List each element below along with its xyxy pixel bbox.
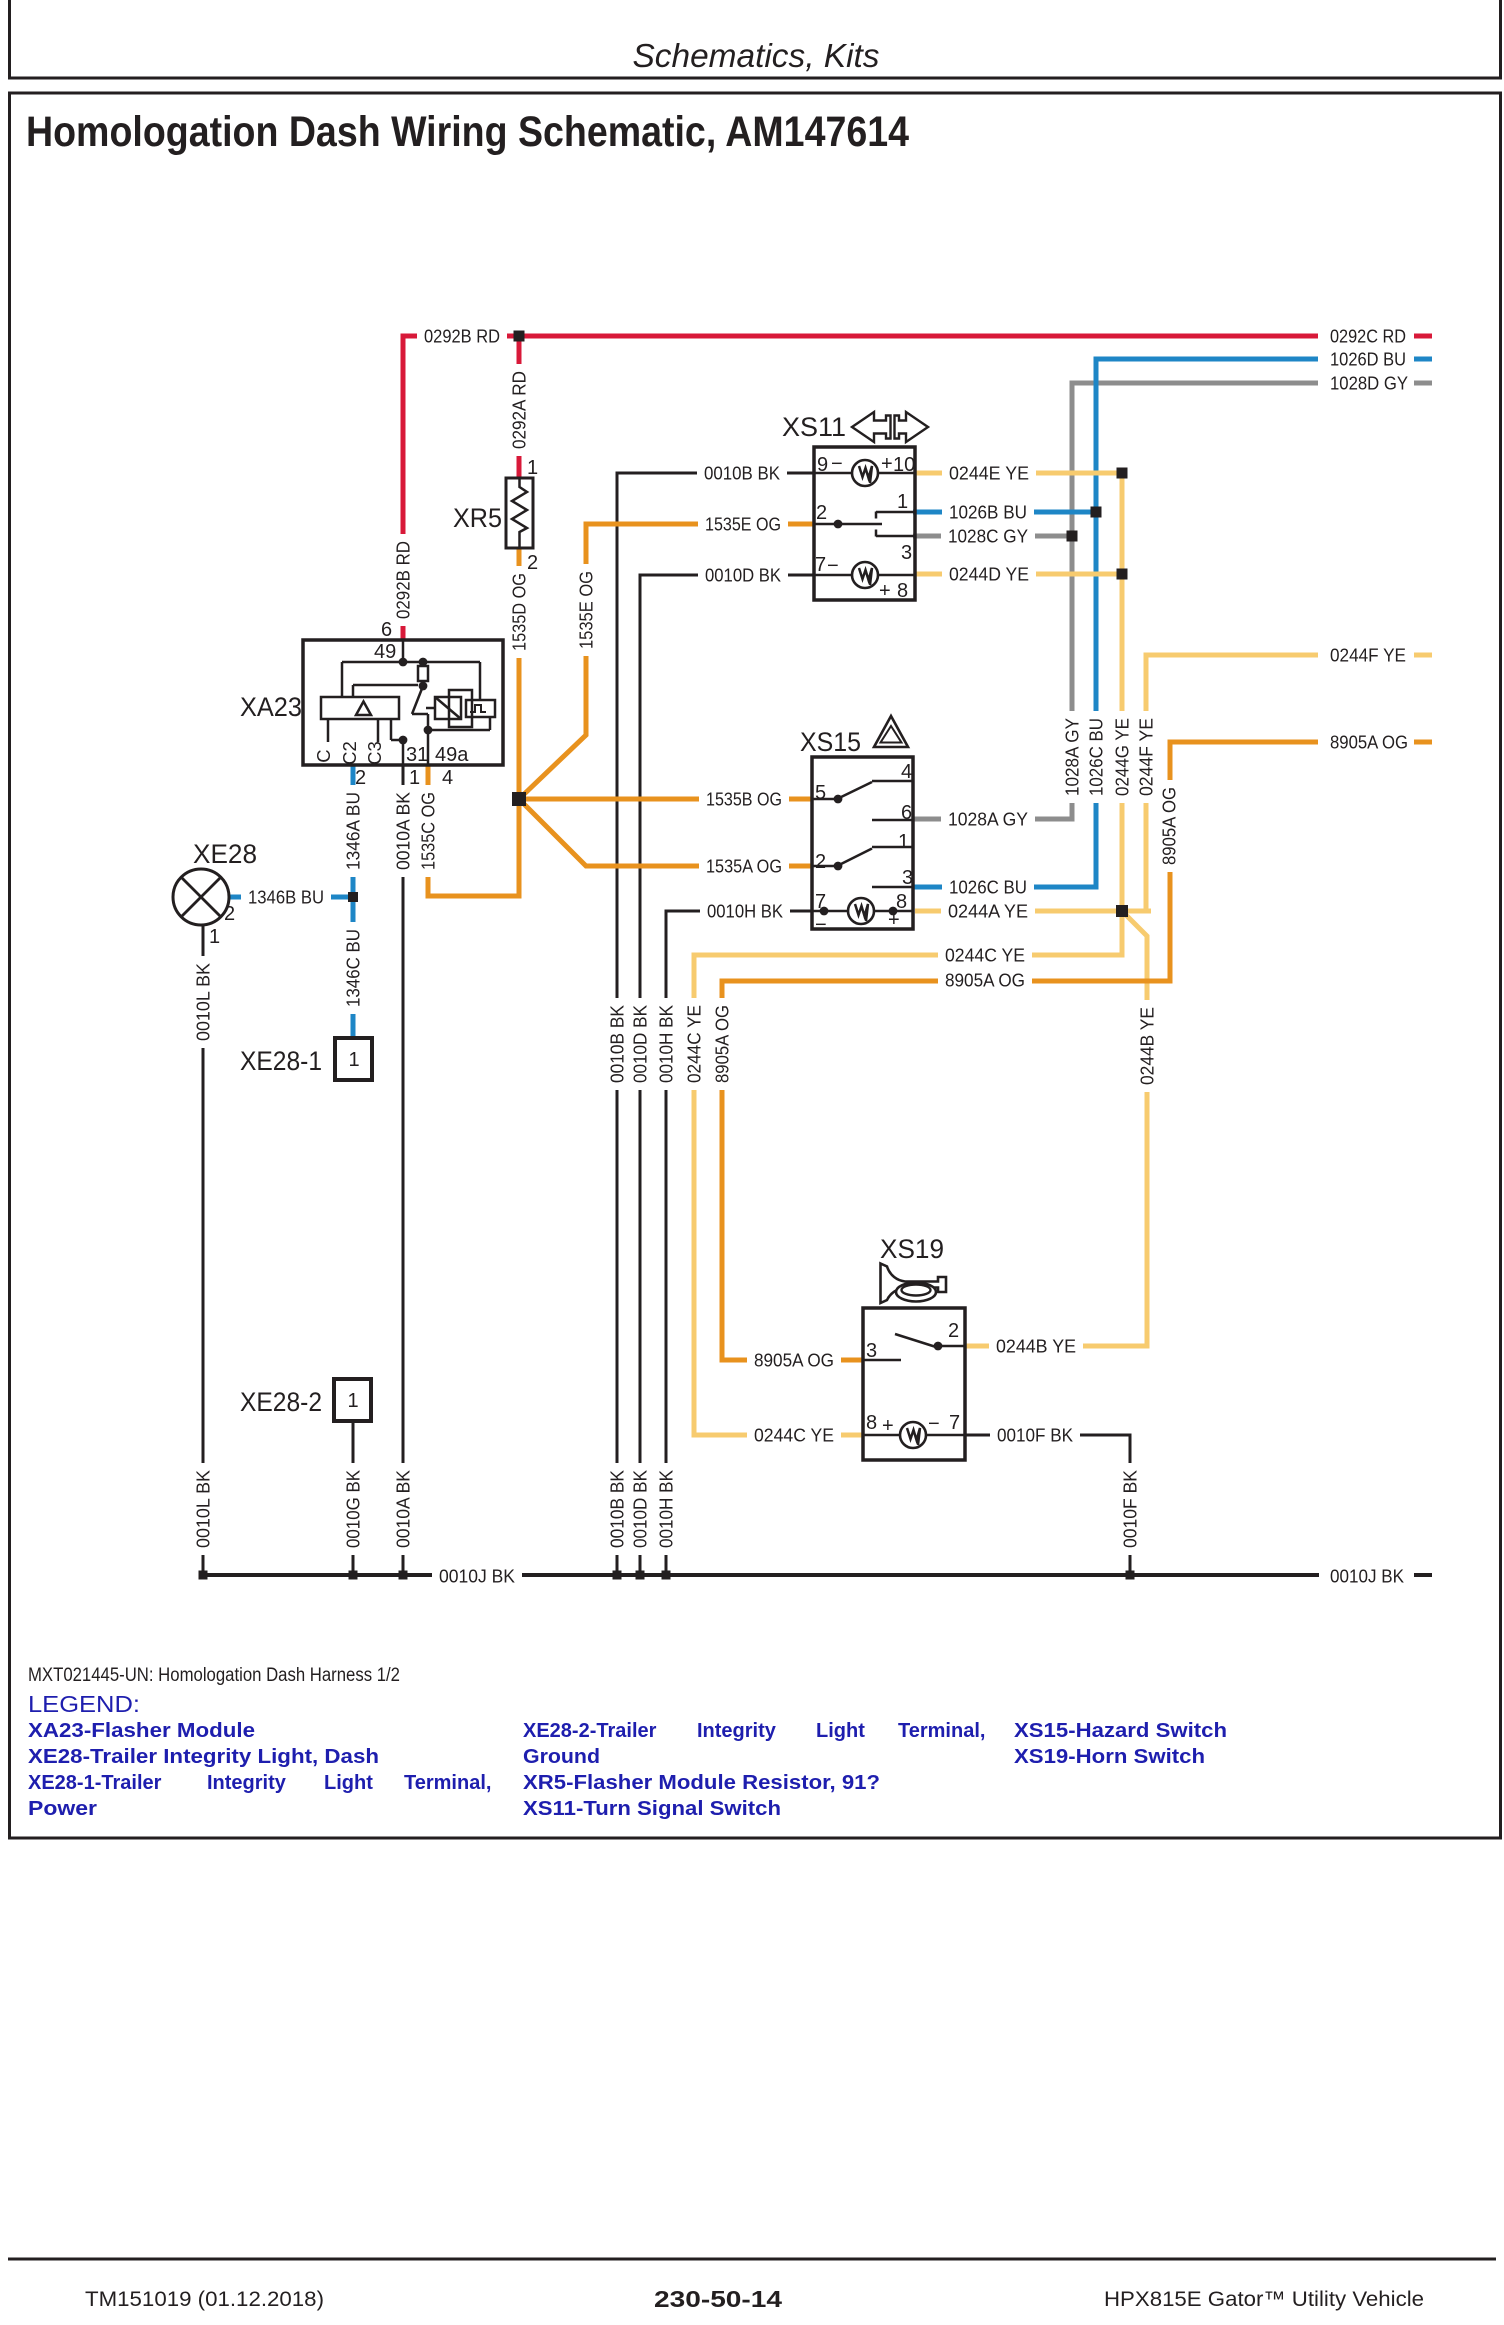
svg-text:XA23: XA23 [240,692,302,722]
svg-text:2: 2 [355,767,366,789]
svg-text:31: 31 [406,744,428,766]
svg-text:XS19: XS19 [880,1234,944,1264]
svg-text:XS11-Turn Signal Switch: XS11-Turn Signal Switch [523,1798,781,1820]
svg-text:7: 7 [815,554,826,576]
svg-text:230-50-14: 230-50-14 [654,2286,782,2312]
svg-text:0010B BK: 0010B BK [704,463,781,484]
svg-text:1026B BU: 1026B BU [949,502,1027,523]
svg-text:2: 2 [527,552,538,574]
svg-text:1346C BU: 1346C BU [343,929,364,1007]
svg-text:0010H BK: 0010H BK [656,1469,677,1548]
svg-text:2: 2 [948,1320,959,1342]
svg-text:0010B BK: 0010B BK [607,1004,628,1083]
svg-text:0244C YE: 0244C YE [684,1005,705,1083]
svg-text:3: 3 [902,867,913,889]
svg-text:XE28-Trailer Integrity Light,: XE28-Trailer Integrity Light, Dash [28,1746,379,1768]
svg-text:XE28-1: XE28-1 [240,1046,322,1076]
svg-text:0244C YE: 0244C YE [945,945,1025,966]
svg-text:−: − [928,1413,940,1435]
svg-text:0010L BK: 0010L BK [193,962,214,1041]
svg-text:C2: C2 [339,741,360,765]
svg-text:XS19-Horn Switch: XS19-Horn Switch [1014,1746,1205,1768]
svg-text:1: 1 [348,1049,359,1071]
svg-text:1026C BU: 1026C BU [949,877,1027,898]
svg-text:0010D BK: 0010D BK [630,1469,651,1548]
svg-text:0292C RD: 0292C RD [1330,326,1406,347]
svg-text:4: 4 [442,767,453,789]
svg-text:0010F BK: 0010F BK [997,1425,1074,1446]
svg-text:1: 1 [409,767,420,789]
svg-text:10: 10 [893,454,915,476]
svg-text:XE28: XE28 [193,839,257,869]
svg-text:5: 5 [815,782,826,804]
svg-text:0010A BK: 0010A BK [393,791,414,870]
svg-text:8905A OG: 8905A OG [754,1350,834,1371]
svg-text:0244C YE: 0244C YE [754,1425,834,1446]
svg-text:LEGEND:: LEGEND: [28,1691,140,1717]
svg-text:−: − [827,555,839,577]
svg-text:+: + [888,909,900,931]
svg-text:TM151019 (01.12.2018): TM151019 (01.12.2018) [85,2288,324,2311]
svg-text:1: 1 [898,831,909,853]
svg-text:1028A GY: 1028A GY [1062,718,1083,796]
svg-text:1026C BU: 1026C BU [1086,718,1107,796]
svg-text:9: 9 [817,454,828,476]
svg-text:1535B OG: 1535B OG [706,789,782,810]
svg-text:XR5: XR5 [453,503,502,533]
svg-text:4: 4 [901,761,912,783]
svg-text:1: 1 [347,1390,358,1412]
svg-text:0244D YE: 0244D YE [949,564,1029,585]
svg-text:C: C [313,749,334,762]
svg-text:8905A OG: 8905A OG [712,1005,733,1083]
svg-text:0010H BK: 0010H BK [707,901,784,922]
svg-text:8905A OG: 8905A OG [945,970,1025,991]
svg-text:0244A YE: 0244A YE [948,901,1028,922]
svg-text:XR5-Flasher Module Resistor, 9: XR5-Flasher Module Resistor, 91? [523,1772,880,1794]
svg-text:XE28-2-TrailerIntegrityLightTe: XE28-2-TrailerIntegrityLightTerminal, [523,1720,985,1742]
svg-text:0292B RD: 0292B RD [393,541,414,619]
svg-text:XS15-Hazard Switch: XS15-Hazard Switch [1014,1720,1227,1742]
svg-text:0010D BK: 0010D BK [705,565,782,586]
svg-text:0244B YE: 0244B YE [996,1336,1076,1357]
svg-text:0010J BK: 0010J BK [1330,1566,1405,1587]
svg-text:XS11: XS11 [782,412,846,442]
svg-text:1535D OG: 1535D OG [509,573,530,651]
svg-text:0010G BK: 0010G BK [343,1469,364,1548]
svg-text:1535C OG: 1535C OG [418,792,439,870]
svg-text:1028D GY: 1028D GY [1330,373,1408,394]
svg-text:8905A OG: 8905A OG [1159,787,1180,865]
svg-text:MXT021445-UN: Homologation Das: MXT021445-UN: Homologation Dash Harness … [28,1665,400,1686]
svg-text:0010J BK: 0010J BK [439,1566,516,1587]
svg-text:49: 49 [374,641,396,663]
svg-text:1026D BU: 1026D BU [1330,349,1406,370]
svg-text:1346A BU: 1346A BU [343,792,364,870]
svg-text:7: 7 [949,1412,960,1434]
svg-text:0010F BK: 0010F BK [1120,1469,1141,1548]
svg-text:1: 1 [897,491,908,513]
svg-text:0244B YE: 0244B YE [1137,1007,1158,1085]
svg-text:2: 2 [224,903,235,925]
svg-text:0010B BK: 0010B BK [607,1469,628,1548]
svg-text:XA23-Flasher Module: XA23-Flasher Module [28,1720,255,1742]
svg-text:1028C GY: 1028C GY [948,526,1028,547]
svg-text:8: 8 [866,1412,877,1434]
svg-text:7: 7 [815,891,826,913]
svg-text:8905A OG: 8905A OG [1330,732,1408,753]
svg-text:0010H BK: 0010H BK [656,1004,677,1083]
svg-text:0010D BK: 0010D BK [630,1004,651,1083]
svg-text:Homologation Dash Wiring Schem: Homologation Dash Wiring Schematic, AM14… [26,108,909,156]
svg-text:2: 2 [816,502,827,524]
svg-text:1: 1 [527,457,538,479]
svg-text:8: 8 [897,580,908,602]
svg-text:Ground: Ground [523,1746,600,1768]
svg-text:+: + [879,580,891,602]
svg-text:Schematics, Kits: Schematics, Kits [633,37,880,74]
svg-text:XS15: XS15 [800,727,861,757]
svg-text:+: + [882,1415,894,1437]
svg-text:6: 6 [381,619,392,641]
svg-text:1535A OG: 1535A OG [706,856,782,877]
svg-text:XE28-2: XE28-2 [240,1387,322,1417]
svg-text:1346B BU: 1346B BU [248,887,324,908]
svg-text:+: + [881,453,893,475]
svg-text:HPX815E Gator™ Utility Vehicle: HPX815E Gator™ Utility Vehicle [1104,2288,1424,2311]
svg-text:0244F YE: 0244F YE [1136,718,1157,796]
svg-text:6: 6 [901,802,912,824]
svg-text:0292B RD: 0292B RD [424,326,500,347]
svg-text:1028A GY: 1028A GY [948,809,1028,830]
svg-text:0244G YE: 0244G YE [1112,718,1133,796]
svg-text:−: − [831,453,843,475]
svg-text:0292A RD: 0292A RD [509,371,530,449]
svg-text:1535E OG: 1535E OG [576,571,597,649]
svg-text:3: 3 [866,1340,877,1362]
svg-text:0244F YE: 0244F YE [1330,645,1406,666]
svg-text:0010L BK: 0010L BK [193,1469,214,1548]
svg-text:−: − [815,914,827,936]
svg-text:2: 2 [815,851,826,873]
svg-text:3: 3 [901,542,912,564]
svg-text:1535E OG: 1535E OG [705,514,781,535]
svg-text:0010A BK: 0010A BK [393,1469,414,1548]
svg-text:C3: C3 [364,741,385,765]
svg-text:XE28-1-TrailerIntegrityLightTe: XE28-1-TrailerIntegrityLightTerminal, [28,1772,491,1794]
svg-text:Power: Power [28,1798,97,1820]
svg-text:0244E YE: 0244E YE [949,463,1029,484]
svg-text:49a: 49a [435,744,469,766]
svg-text:1: 1 [209,926,220,948]
